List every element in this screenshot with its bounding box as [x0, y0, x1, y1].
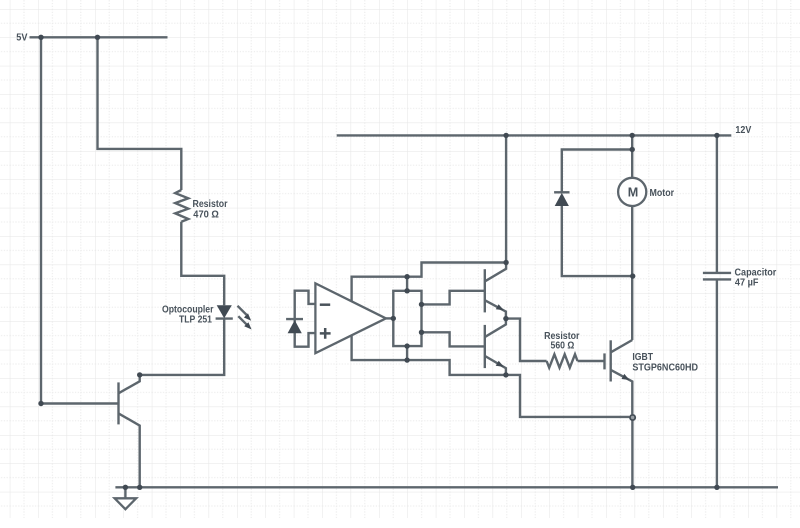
svg-text:12V: 12V	[735, 125, 751, 136]
svg-text:Motor: Motor	[650, 188, 675, 199]
svg-text:STGP6NC60HD: STGP6NC60HD	[632, 363, 698, 374]
svg-text:5V: 5V	[16, 32, 28, 43]
svg-text:IGBT: IGBT	[632, 352, 653, 363]
svg-text:560 Ω: 560 Ω	[551, 341, 575, 352]
svg-text:47 µF: 47 µF	[735, 278, 759, 289]
svg-text:470 Ω: 470 Ω	[193, 209, 219, 220]
svg-text:TLP 251: TLP 251	[179, 315, 213, 326]
svg-text:M: M	[628, 186, 639, 200]
